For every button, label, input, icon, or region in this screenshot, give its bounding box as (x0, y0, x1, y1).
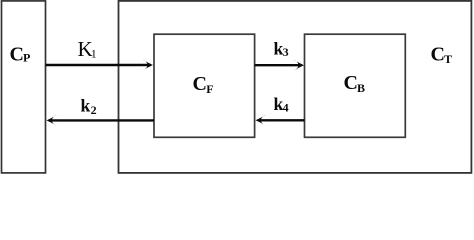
arrow K1 head (143, 60, 153, 71)
svg-text:C: C (344, 72, 358, 94)
svg-text:2: 2 (91, 103, 97, 117)
svg-text:B: B (357, 81, 365, 95)
compartment box CB (bound) (305, 34, 406, 137)
arrow k4 head (256, 115, 266, 126)
svg-text:1: 1 (91, 47, 97, 61)
svg-text:4: 4 (283, 101, 289, 115)
compartment box CF (free) (154, 34, 255, 137)
arrow k2 head (47, 115, 57, 126)
arrow k4 wire (258, 119, 305, 121)
svg-text:C: C (431, 43, 445, 65)
compartment box CT (tissue, outer) (119, 1, 472, 173)
arrow k2 wire (49, 119, 154, 121)
svg-text:P: P (23, 51, 30, 65)
svg-text:T: T (444, 52, 452, 66)
svg-text:C: C (193, 73, 207, 95)
svg-text:C: C (10, 43, 24, 65)
arrow k3 wire (255, 64, 302, 66)
arrow k3 head (294, 60, 304, 71)
svg-text:k: k (81, 96, 91, 116)
arrow K1 wire (46, 64, 151, 66)
svg-text:F: F (206, 82, 213, 96)
compartment box CP (plasma) (2, 1, 46, 173)
svg-text:3: 3 (283, 45, 289, 59)
